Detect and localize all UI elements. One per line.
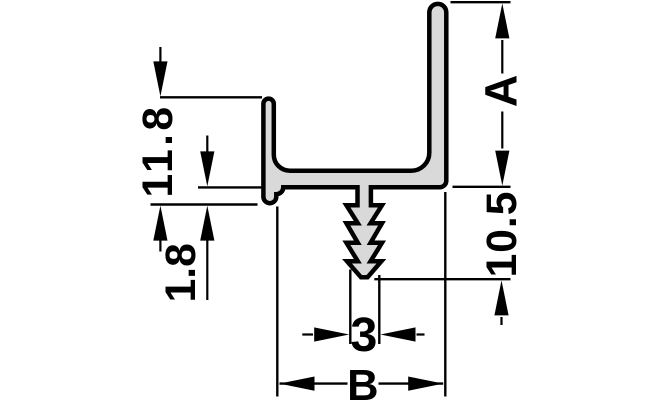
- tail 3 left: [302, 333, 313, 335]
- tail 10.5 bottom: [500, 317, 502, 325]
- tail 11.8 top: [159, 47, 161, 63]
- ext line foot bottom (11.8 / 1.8 bottom): [151, 203, 258, 205]
- arrow 11.8 bottom (up): [153, 206, 167, 241]
- tail 1.8 top: [206, 136, 208, 154]
- arrow 1.8 top (down): [200, 151, 214, 186]
- thin dimension/extension lines: [151, 2, 511, 396]
- svg-text:1.8: 1.8: [158, 243, 205, 302]
- ext line web bottom left (1.8 top): [198, 186, 262, 188]
- B dimension line right segment: [379, 382, 444, 384]
- arrow B right (right-pointing): [408, 377, 443, 391]
- svg-text:11.8: 11.8: [135, 104, 182, 198]
- arrow A top (up): [495, 3, 509, 38]
- ext line stem right (3 right): [378, 275, 380, 344]
- tail 3 right: [417, 333, 425, 335]
- arrow 11.8 top (down): [153, 61, 167, 96]
- svg-text:3: 3: [350, 308, 377, 362]
- svg-text:10.5: 10.5: [479, 191, 526, 278]
- arrow A bottom (down): [495, 151, 509, 186]
- ext line right arm top (A top): [451, 1, 511, 3]
- ext line B right: [444, 192, 446, 397]
- svg-text:B: B: [347, 362, 378, 400]
- arrowheads and tails: [153, 3, 509, 390]
- ext line stem tip (10.5 bottom): [374, 278, 510, 280]
- arrow 1.8 bottom (up): [200, 206, 214, 241]
- arrow 3 left (right-pointing): [314, 327, 349, 341]
- tail 11.8 bottom: [159, 239, 161, 252]
- ext line stem left (3 left): [349, 270, 351, 345]
- ext line B left: [276, 207, 278, 397]
- tail A bottom: [501, 112, 503, 149]
- tail A top: [501, 40, 503, 74]
- arrow 3 right (left-pointing): [381, 327, 416, 341]
- B dimension line left segment: [280, 382, 348, 384]
- svg-text:A: A: [476, 75, 527, 108]
- arrow B left (left-pointing): [280, 377, 315, 391]
- ext line left arm top (11.8 top): [160, 96, 262, 98]
- tail 1.8 bottom: [206, 239, 208, 300]
- arrow 10.5 bottom (up): [494, 280, 508, 315]
- ext line profile bottom right (A bottom / 10.5 top): [453, 186, 511, 188]
- profile cross-section body: [263, 4, 446, 277]
